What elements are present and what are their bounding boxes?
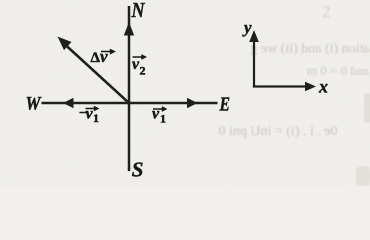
right edge scan smudge upper <box>364 93 370 123</box>
bleed-through text row C (mirrored) <box>218 124 337 139</box>
vector v2 arrowhead (north) <box>124 22 134 36</box>
vector delta-v arrowhead <box>58 37 72 51</box>
label -v1 with vector arrow (west) <box>79 106 99 126</box>
xy coordinate axes: y axis <box>253 40 255 88</box>
bleed-through text row B (mirrored) <box>307 63 369 78</box>
y axis arrowhead <box>249 30 259 42</box>
bleed-through digit 2 (faint) <box>322 2 331 21</box>
bleed-through text row A (mirrored) <box>250 42 369 57</box>
vector -v1 arrowhead (west) <box>63 98 74 108</box>
vector v1 arrowhead (east) <box>187 98 198 108</box>
paper background <box>0 0 370 187</box>
axis N-S (vertical line) <box>128 6 131 171</box>
xy coordinate axes: x axis <box>253 85 306 87</box>
vector delta-v shaft (diagonal) <box>65 45 129 104</box>
axis W-E (horizontal line) <box>42 102 218 105</box>
label delta-v with vector arrow <box>91 47 116 66</box>
right edge scan smudge lower <box>356 166 370 186</box>
label v1 with vector arrow (east) <box>152 106 167 126</box>
x axis arrowhead <box>305 82 316 92</box>
paper grain overlay <box>0 0 1 1</box>
label v2 with vector arrow <box>132 55 147 78</box>
